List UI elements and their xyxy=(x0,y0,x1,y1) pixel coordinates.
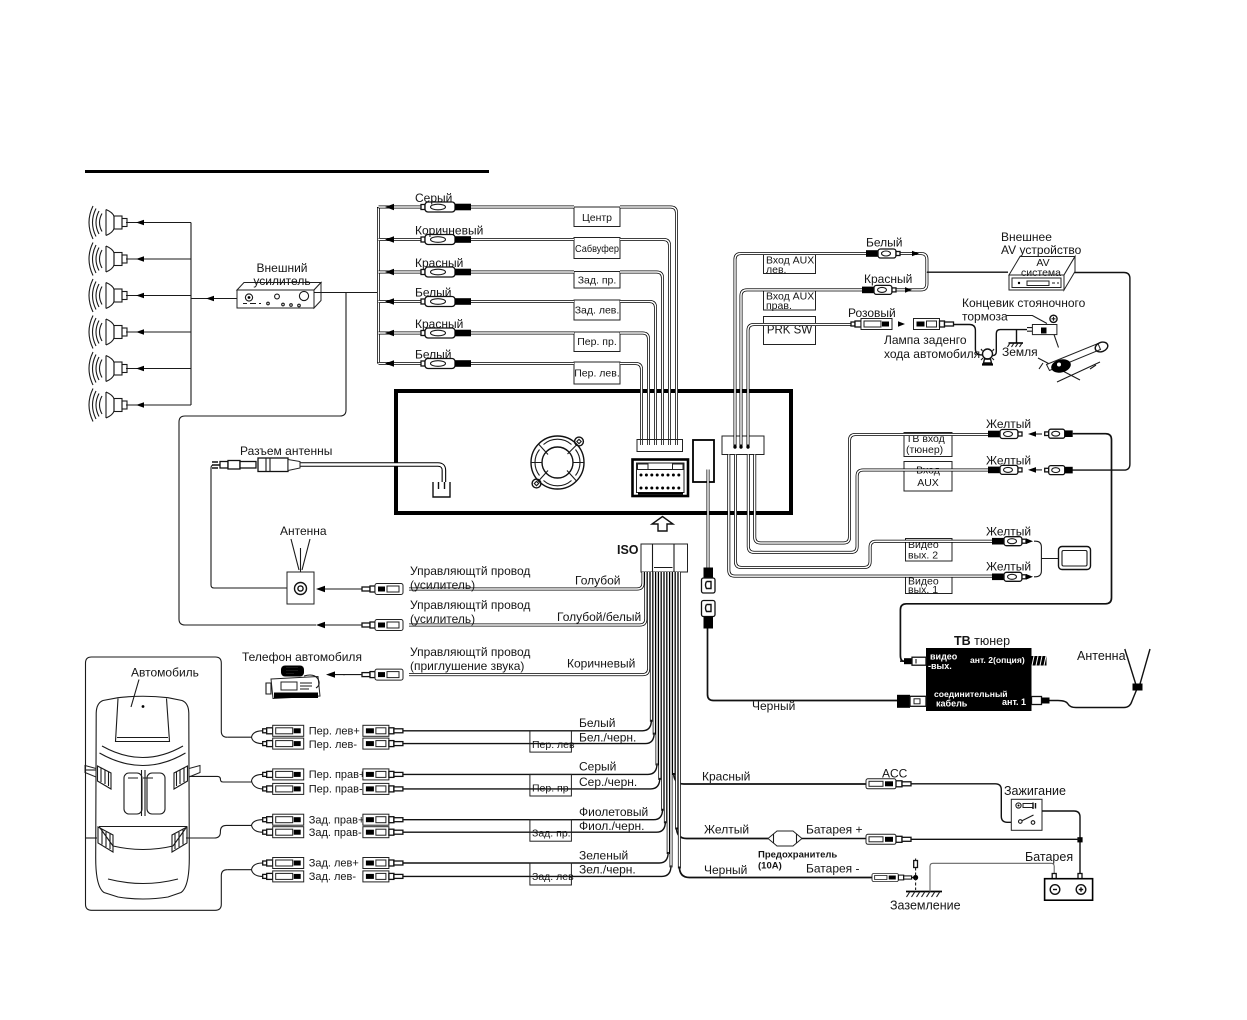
label Белый-1 xyxy=(415,286,451,300)
label Желтый (ТВ вход) xyxy=(986,417,1031,431)
heading underline xyxy=(85,170,489,173)
connector ACC xyxy=(866,779,911,789)
RCA female Желтый (Видео вых 1) xyxy=(992,572,1033,581)
labels wire colors pair4 xyxy=(579,849,636,877)
svg-text:PRK SW: PRK SW xyxy=(767,325,813,337)
ground hatch Заземление xyxy=(906,892,942,898)
label Красный-2 xyxy=(415,317,463,331)
speaker SP1 xyxy=(89,206,127,239)
svg-text:Батарея -: Батарея - xyxy=(806,862,860,876)
box Видео вых. 1 xyxy=(906,576,953,597)
bundle wire Черный (power) xyxy=(679,572,872,878)
RCA Красный (AUX прав) xyxy=(862,285,912,294)
box Зад. лев. xyxy=(574,300,620,320)
label Коричневый xyxy=(567,657,635,671)
label ISO xyxy=(617,543,639,557)
label Красный (power) xyxy=(702,770,750,784)
svg-text:Черный: Черный xyxy=(704,863,747,877)
connector соединительный кабель (tuner bottom left) xyxy=(897,695,926,708)
bundle wire Белый (Пер.лев+) xyxy=(403,572,651,731)
svg-text:Фиолетовый: Фиолетовый xyxy=(579,805,648,819)
svg-text:Пер. лев.: Пер. лев. xyxy=(574,368,620,380)
connector mate Пер.лев- xyxy=(363,738,403,749)
car body (top view) xyxy=(96,696,190,899)
connector ант.2 (опция) xyxy=(1032,656,1047,666)
label Заземление xyxy=(890,899,961,913)
AV system device xyxy=(1009,257,1075,291)
stub rear-left speaker xyxy=(86,837,98,839)
svg-text:Зад. лев+: Зад. лев+ xyxy=(309,858,359,870)
svg-text:Красный: Красный xyxy=(415,317,463,331)
box Вход AUX xyxy=(904,462,952,492)
connector Зад.лев+ xyxy=(263,858,304,869)
label Батарея - xyxy=(806,862,860,876)
svg-text:лев.: лев. xyxy=(766,264,786,276)
car speaker rear-left xyxy=(98,827,113,852)
svg-text:тормоза: тормоза xyxy=(962,310,1008,324)
label Желтый (Видео вых 1) xyxy=(986,560,1031,574)
svg-text:Сер./черн.: Сер./черн. xyxy=(579,775,637,789)
svg-text:Земля: Земля xyxy=(1002,345,1038,359)
svg-text:Белый: Белый xyxy=(415,286,451,300)
16-pin ISO socket on unit xyxy=(633,460,689,497)
svg-text:Внешнее: Внешнее xyxy=(1001,230,1052,244)
bundle wire Бел./черн. (Пер.лев-) xyxy=(403,572,654,744)
wire pink to reverse lamp xyxy=(954,325,983,355)
label ТВ тюнер xyxy=(954,634,1010,648)
connector Розовый female xyxy=(851,319,905,330)
label Телефон автомобиля xyxy=(242,650,362,664)
RCA connector Красный-2 xyxy=(421,328,471,338)
callout line тормоза to switch xyxy=(1006,316,1047,324)
wire PRK SW (pink) xyxy=(748,325,851,437)
svg-text:Пер. лев+: Пер. лев+ xyxy=(309,726,360,738)
svg-text:Разъем антенны: Разъем антенны xyxy=(240,444,332,458)
connector mate Пер.прав+ xyxy=(363,769,403,780)
label Батарея xyxy=(1025,850,1073,864)
wire rear-right speaker to pair3 apex xyxy=(186,825,252,838)
wire Вход AUX лев (white RCA) xyxy=(735,254,927,437)
connector Коричневый + arrow xyxy=(326,669,403,680)
svg-text:Белый: Белый xyxy=(579,716,615,730)
bundle wire Голубой xyxy=(409,572,643,589)
svg-text:Желтый: Желтый xyxy=(986,417,1031,431)
box Пер. лев xyxy=(530,731,575,752)
label Белый (AUX лев) xyxy=(866,236,902,250)
label Управляющтй провод (усилитель) 2 xyxy=(410,598,530,626)
label ACC xyxy=(882,767,908,781)
wire front-right speaker to pair2 apex xyxy=(189,776,251,782)
svg-text:система: система xyxy=(1021,267,1061,279)
wire Батарея- to ground junction xyxy=(912,875,918,880)
labels wire colors pair2 xyxy=(579,760,637,789)
svg-text:Лампа заденго: Лампа заденго xyxy=(884,333,967,347)
svg-text:Белый: Белый xyxy=(415,348,451,362)
fan screw bottom-left xyxy=(532,479,541,488)
grey wire battery minus post to ground xyxy=(930,863,1054,891)
connector Зад.лев- xyxy=(263,871,304,882)
box Сабвуфер xyxy=(574,238,620,259)
svg-text:кабель: кабель xyxy=(936,699,968,709)
ground lead to Земля xyxy=(1016,330,1018,343)
label Красный-1 xyxy=(415,256,463,270)
svg-text:Зад. лев.: Зад. лев. xyxy=(575,305,620,317)
bundle wire Серый (Пер.прав+) xyxy=(403,572,657,774)
box Видео вых. 2 xyxy=(906,539,953,562)
svg-text:Пер. пр.: Пер. пр. xyxy=(577,336,617,348)
wire speaker 3 to bus xyxy=(126,293,191,299)
speaker SP4 xyxy=(89,316,127,349)
bundle wire Зел./черн. (Зад.лев-) xyxy=(403,572,671,876)
connector Пер.лев+ xyxy=(263,725,304,736)
label Зажигание xyxy=(1004,784,1066,798)
svg-text:Желтый: Желтый xyxy=(986,454,1031,468)
box Зад. лев xyxy=(530,863,574,885)
bundle wire Голубой/белый xyxy=(409,572,646,625)
label Розовый xyxy=(848,306,896,320)
car speaker front-right xyxy=(174,766,200,790)
wire speaker 6 to bus xyxy=(126,402,191,408)
svg-text:Пер. лев: Пер. лев xyxy=(532,739,575,751)
svg-text:Зад. пр.: Зад. пр. xyxy=(578,275,617,287)
RCA row Белый-2 wire xyxy=(379,360,642,445)
connector mate Зад.прав- xyxy=(363,827,403,838)
svg-text:Зад. прав-: Зад. прав- xyxy=(309,827,362,839)
antenna mast xyxy=(1125,649,1150,691)
svg-text:Бел./черн.: Бел./черн. xyxy=(579,731,636,745)
label Черный (power) xyxy=(704,863,747,877)
box Вход AUX прав. xyxy=(764,290,816,312)
wire speaker 1 to bus xyxy=(126,220,191,226)
wire Вход AUX прав (red RCA) xyxy=(741,272,927,436)
RCA male Желтый (ТВ вход) xyxy=(1045,429,1073,438)
head unit (rear view) xyxy=(396,391,791,513)
wire to AV system xyxy=(927,271,1008,273)
wire male RCA to TV tuner xyxy=(900,434,1111,662)
svg-text:Центр: Центр xyxy=(582,212,612,224)
svg-text:Антенна: Антенна xyxy=(280,524,327,538)
wire ТВ вход (path A) xyxy=(755,435,988,544)
svg-text:Красный: Красный xyxy=(702,770,750,784)
svg-text:Черный: Черный xyxy=(752,699,795,713)
RCA bus vertical xyxy=(377,207,380,364)
wire AV system to AUX male RCA xyxy=(1064,273,1130,471)
wire amplifier to RCA bus xyxy=(314,292,379,294)
wire video outs to monitor xyxy=(1034,541,1059,577)
ISO connector xyxy=(641,544,688,572)
connector Зад.прав+ xyxy=(263,814,304,825)
svg-text:усилитель: усилитель xyxy=(253,274,310,288)
RCA connector Белый-2 xyxy=(421,359,471,369)
connector Пер.лев- xyxy=(263,738,304,749)
svg-text:Серый: Серый xyxy=(415,191,452,205)
label Желтый (power) xyxy=(704,823,749,837)
label Пер. прав+ / Пер. прав- xyxy=(309,769,366,796)
box Пер. пр. xyxy=(574,332,620,352)
right connector block on unit xyxy=(722,435,764,455)
box Зад. пр. xyxy=(574,272,620,289)
label Антенна (right) xyxy=(1077,649,1126,663)
label Зад. прав+ / Зад. прав- xyxy=(309,814,365,839)
svg-text:AUX: AUX xyxy=(917,477,939,489)
car phone device xyxy=(266,666,320,699)
svg-text:ант. 1: ант. 1 xyxy=(1002,697,1026,707)
fan screw top-right xyxy=(575,437,584,446)
arrow to phone xyxy=(343,674,345,676)
ignition switch box xyxy=(1011,799,1042,830)
label Управляющтй провод (усилитель) 1 xyxy=(410,564,530,592)
RCA row Серый wire xyxy=(379,204,677,445)
RCA male Желтый (Вход AUX) xyxy=(1045,466,1073,475)
label Черный (mini-jack) xyxy=(752,699,795,713)
RCA row Красный-2 wire xyxy=(379,330,649,445)
label Голубой/белый xyxy=(557,610,641,624)
wire Видео вых 1 (path D) xyxy=(729,455,992,577)
label Внешний усилитель xyxy=(253,261,310,288)
svg-text:(тюнер): (тюнер) xyxy=(906,444,943,456)
svg-text:Автомобиль: Автомобиль xyxy=(131,666,199,680)
box Пер. лев. xyxy=(574,362,620,384)
connector mate Пер.прав- xyxy=(363,783,403,794)
label Белый-2 xyxy=(415,348,451,362)
svg-text:ACC: ACC xyxy=(882,767,908,781)
svg-text:Зад. пр.: Зад. пр. xyxy=(532,828,571,840)
wire ACC to ignition xyxy=(911,784,1011,823)
wire speaker 4 to bus xyxy=(126,329,191,335)
svg-text:Желтый: Желтый xyxy=(704,823,749,837)
connector Батарея- xyxy=(872,874,912,882)
svg-text:Сабвуфер: Сабвуфер xyxy=(575,243,619,255)
label Пер. лев+ / Пер. лев- xyxy=(309,726,360,752)
svg-text:ант. 2(опция): ант. 2(опция) xyxy=(970,655,1025,665)
svg-text:Заземление: Заземление xyxy=(890,899,961,913)
fan inside head unit xyxy=(531,436,584,489)
box Центр xyxy=(574,207,620,227)
speaker SP5 xyxy=(89,352,127,385)
svg-text:-вых.: -вых. xyxy=(928,661,952,671)
RCA connector Коричневый xyxy=(421,235,471,245)
svg-text:ТВ тюнер: ТВ тюнер xyxy=(954,634,1010,648)
wire amp control tap down-left xyxy=(179,293,346,626)
up arrow below head unit xyxy=(652,517,673,532)
TV tuner box xyxy=(926,648,1032,711)
label Антенна (roof) xyxy=(280,524,327,538)
svg-text:AV устройство: AV устройство xyxy=(1001,243,1082,257)
svg-text:Серый: Серый xyxy=(579,760,616,774)
grounding screw xyxy=(914,859,918,891)
svg-text:Антенна: Антенна xyxy=(1077,649,1126,663)
svg-text:Внешний: Внешний xyxy=(257,261,308,275)
label Желтый (Вход AUX) xyxy=(986,454,1031,468)
svg-text:Красный: Красный xyxy=(415,256,463,270)
mini-jack wire from module xyxy=(707,470,710,569)
RCA connector Белый-1 xyxy=(421,297,471,307)
label Земля xyxy=(1002,345,1038,359)
box ТВ вход (тюнер) xyxy=(904,433,952,457)
svg-text:Коричневый: Коричневый xyxy=(415,224,483,238)
RCA Белый (AUX лев) xyxy=(866,249,919,258)
connector Розовый male xyxy=(914,319,954,330)
wire speaker 5 to bus xyxy=(126,366,191,372)
bundle wire Зеленый (Зад.лев+) xyxy=(403,572,668,863)
car speaker rear-right xyxy=(172,827,187,852)
label Серый xyxy=(415,191,452,205)
junction dot on Желтый line xyxy=(1077,837,1082,842)
bundle wire Красный (power) xyxy=(674,572,866,784)
wire bus to amplifier xyxy=(191,296,237,302)
label Красный (AUX прав) xyxy=(864,272,912,286)
RCA connector Серый xyxy=(421,202,471,212)
connector mate Зад.лев- xyxy=(363,871,403,882)
label Предохранитель (10А) xyxy=(758,850,837,872)
RCA row Коричневый wire xyxy=(379,236,670,445)
speaker SP3 xyxy=(89,279,127,312)
svg-text:Красный: Красный xyxy=(864,272,912,286)
car wiring loop xyxy=(86,657,228,910)
svg-text:Желтый: Желтый xyxy=(986,560,1031,574)
reverse lamp bulb xyxy=(981,349,994,365)
handbrake lever drawing xyxy=(1038,340,1109,382)
bundle wire Фиол./черн. (Зад.прав-) xyxy=(403,572,665,832)
svg-text:вых. 1: вых. 1 xyxy=(908,584,938,596)
svg-text:Предохранитель: Предохранитель xyxy=(758,850,837,861)
bundle wire Фиолетовый (Зад.прав+) xyxy=(403,572,663,820)
stub front-left speaker xyxy=(86,769,97,771)
bundle wire Сер./черн. (Пер.прав-) xyxy=(403,572,660,789)
speaker SP2 xyxy=(89,243,127,276)
svg-text:Зел./черн.: Зел./черн. xyxy=(579,863,636,877)
speaker bus vertical xyxy=(190,223,192,406)
svg-text:вых. 2: вых. 2 xyxy=(908,550,938,562)
svg-text:Фиол./черн.: Фиол./черн. xyxy=(579,819,644,833)
svg-text:Желтый: Желтый xyxy=(986,525,1031,539)
svg-text:Зад. прав+: Зад. прав+ xyxy=(309,814,365,826)
svg-text:соединительный: соединительный xyxy=(934,689,1008,699)
box Пер. пр xyxy=(530,774,572,796)
wire loop to pair4 apex xyxy=(227,869,251,871)
svg-text:(приглушение звука): (приглушение звука) xyxy=(410,659,524,673)
svg-text:Батарея: Батарея xyxy=(1025,850,1073,864)
connector mate Пер.лев+ xyxy=(363,725,403,736)
label Лампа заденго хода автомобиля xyxy=(884,333,980,361)
svg-text:Голубой/белый: Голубой/белый xyxy=(557,610,641,624)
bundle wire Желтый (power) xyxy=(677,572,768,839)
svg-text:Коричневый: Коричневый xyxy=(567,657,635,671)
box Вход AUX лев. xyxy=(764,255,816,277)
svg-text:Телефон автомобиля: Телефон автомобиля xyxy=(242,650,362,664)
antenna lead-in cable to unit socket xyxy=(300,465,444,483)
mini-jack male plug xyxy=(702,568,716,594)
car speaker front-left xyxy=(85,766,111,790)
svg-text:Зад. лев: Зад. лев xyxy=(532,871,574,883)
bundle wire Коричневый xyxy=(409,572,649,675)
RCA connector Красный-1 xyxy=(421,267,471,277)
label Внешнее AV устройство xyxy=(1001,230,1082,257)
svg-text:(10А): (10А) xyxy=(758,861,782,872)
svg-text:хода автомобиля: хода автомобиля xyxy=(884,347,980,361)
svg-text:Управляющтй провод: Управляющтй провод xyxy=(410,564,530,578)
box PRK SW xyxy=(764,317,816,345)
ground symbol Земля xyxy=(1008,343,1024,347)
labels wire colors pair3 xyxy=(579,805,648,833)
label Желтый (Видео вых 2) xyxy=(986,525,1031,539)
label Разъем антенны xyxy=(240,444,332,458)
label Коричневый xyxy=(415,224,483,238)
svg-text:Пер. пр: Пер. пр xyxy=(532,783,569,795)
wire Батарея+ to junction xyxy=(911,838,1080,840)
wire speaker 2 to bus xyxy=(126,256,191,262)
connector mate Зад.лев+ xyxy=(363,858,403,869)
wire ignition to battery junction xyxy=(1042,811,1080,874)
connector Пер.прав+ xyxy=(263,769,304,780)
RCA female Желтый (ТВ вход) xyxy=(988,430,1042,439)
plug video out (tuner left top) xyxy=(900,657,926,665)
svg-text:Розовый: Розовый xyxy=(848,306,896,320)
mini-jack female plug xyxy=(702,601,716,629)
svg-text:Пер. лев-: Пер. лев- xyxy=(309,739,358,751)
box Зад. пр. xyxy=(530,820,572,842)
wire antenna plug to roof antenna box xyxy=(211,465,287,588)
svg-text:Концевик стояночного: Концевик стояночного xyxy=(962,296,1086,310)
wire Вход AUX (path B) xyxy=(748,455,988,553)
connector Зад.прав- xyxy=(263,827,304,838)
speaker SP6 xyxy=(89,389,127,422)
connector mate Зад.прав+ xyxy=(363,814,403,825)
antenna plug xyxy=(212,458,300,472)
wire Черный (mini-jack to tuner) xyxy=(708,629,898,701)
monitor xyxy=(1059,547,1091,570)
label Автомобиль xyxy=(131,666,199,708)
roof antenna mast xyxy=(291,539,310,572)
svg-text:(усилитель): (усилитель) xyxy=(410,612,475,626)
svg-text:Голубой: Голубой xyxy=(575,574,621,588)
RCA female Желтый (Вход AUX) xyxy=(988,465,1042,474)
connector Голубой/белый + arrow xyxy=(316,620,403,631)
label Зад. лев+ / Зад. лев- xyxy=(309,858,359,884)
svg-text:Белый: Белый xyxy=(866,236,902,250)
connector Голубой + arrow xyxy=(316,584,403,595)
svg-text:Управляющтй провод: Управляющтй провод xyxy=(410,645,530,659)
wire ант.1 to antenna mast xyxy=(1050,690,1137,708)
svg-text:ISO: ISO xyxy=(617,543,639,557)
svg-text:Пер. прав-: Пер. прав- xyxy=(309,784,363,796)
antenna socket inside unit xyxy=(433,482,450,497)
svg-text:Управляющтй провод: Управляющтй провод xyxy=(410,598,530,612)
parking brake switch xyxy=(1027,315,1059,347)
RCA row Белый-1 wire xyxy=(379,298,656,445)
wire holder above 16-pin connector xyxy=(637,440,683,452)
svg-text:Зад. лев-: Зад. лев- xyxy=(309,871,357,883)
RCA female Желтый (Видео вых 2) xyxy=(992,537,1033,546)
battery xyxy=(1045,874,1093,901)
pair4 bracket xyxy=(252,863,263,876)
connector Батарея+ xyxy=(866,834,911,844)
wire fuse to Батарея+ connector xyxy=(802,838,866,840)
label Батарея + xyxy=(806,823,863,837)
connector Пер.прав- xyxy=(263,783,304,794)
roof antenna box xyxy=(287,572,314,604)
label Голубой xyxy=(575,574,621,588)
svg-text:прав.: прав. xyxy=(766,300,792,312)
connector ант. 1 xyxy=(1032,697,1050,705)
external amplifier U-AMP xyxy=(237,283,321,309)
fuse Предохранитель xyxy=(768,831,802,846)
label Концевик стояночного тормоза xyxy=(962,296,1086,324)
pair2 bracket xyxy=(252,774,263,789)
label Управляющтй провод (приглушение звука) xyxy=(410,645,530,673)
wire lamp to parking brake switch xyxy=(993,330,1028,356)
RCA row Красный-1 wire xyxy=(379,269,663,445)
